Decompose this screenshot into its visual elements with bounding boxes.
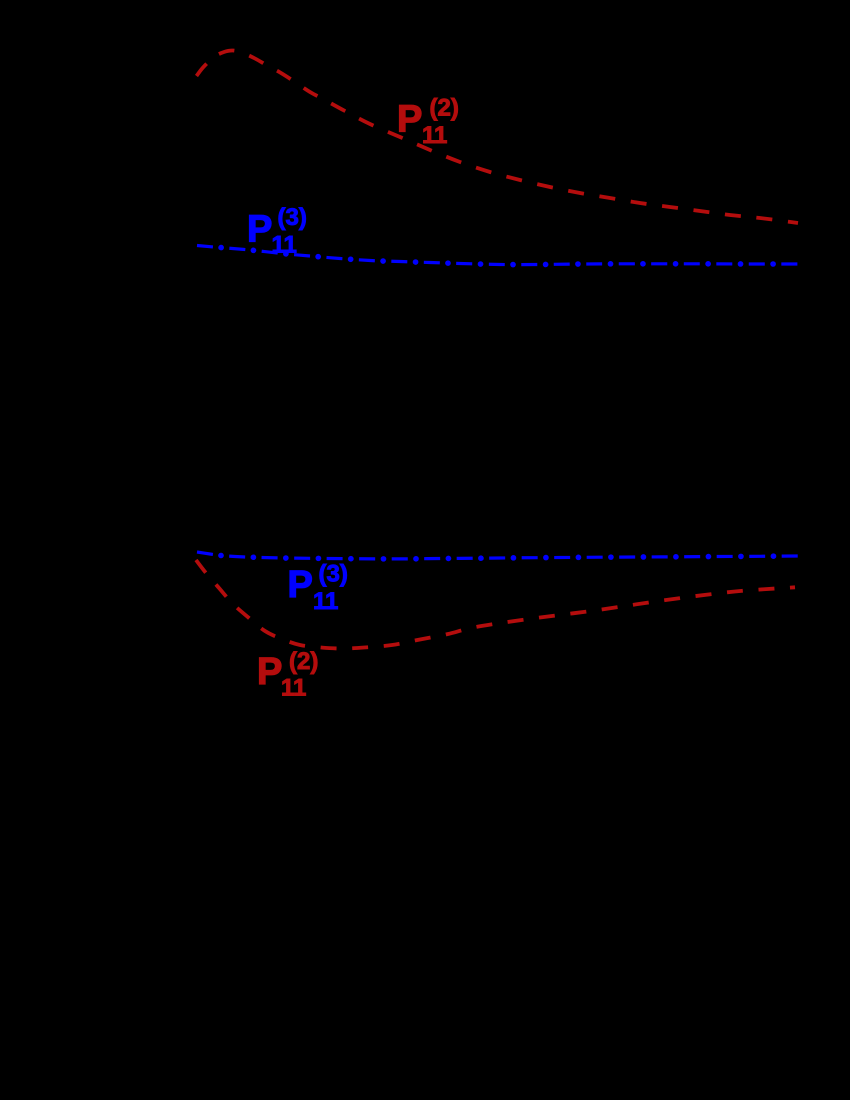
svg-text:P: P	[247, 209, 272, 251]
top panel blue dash-dot curve P11(3) dashes	[197, 246, 798, 265]
top panel red label P11(2)	[397, 95, 459, 150]
svg-text:(3): (3)	[319, 561, 348, 588]
bottom panel blue dash-dot curve P11(3) dashes	[197, 552, 798, 559]
bottom panel blue label P11(3)	[288, 561, 348, 616]
top panel blue label P11(3)	[247, 204, 307, 259]
bottom panel red dashed curve P11(2)	[196, 560, 795, 649]
svg-text:(3): (3)	[278, 204, 307, 231]
bottom panel red label P11(2)	[257, 648, 318, 702]
top panel red dashed curve P11(2)	[197, 50, 799, 223]
svg-text:(2): (2)	[430, 95, 459, 122]
svg-text:P: P	[288, 564, 313, 606]
svg-text:11: 11	[281, 675, 306, 702]
svg-text:11: 11	[272, 232, 297, 259]
bottom panel blue dash-dot curve P11(3) dots	[197, 552, 798, 559]
svg-text:11: 11	[313, 588, 338, 615]
svg-text:11: 11	[422, 122, 447, 149]
top panel blue dash-dot curve P11(3) dots	[197, 246, 798, 265]
svg-text:P: P	[257, 651, 282, 693]
svg-text:P: P	[397, 99, 422, 141]
svg-text:(2): (2)	[289, 648, 318, 675]
